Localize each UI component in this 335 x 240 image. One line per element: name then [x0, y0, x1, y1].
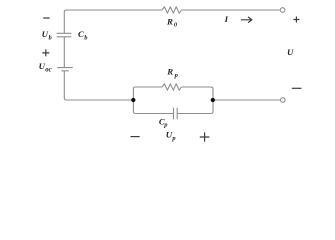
wire: loop upper branch with node stubs	[133, 87, 162, 100]
polarity minus of U terminal	[292, 87, 302, 89]
capacitor Cb	[57, 33, 72, 37]
polarity minus of Up	[131, 136, 140, 138]
svg-text:b: b	[84, 34, 88, 41]
svg-text:R: R	[166, 66, 173, 76]
wire: Rp to right side of loop	[181, 87, 213, 100]
wire: loop lower branch left to Cp	[133, 100, 173, 114]
svg-text:R: R	[166, 16, 173, 26]
wire top-left: from capacitor Cb up and across to R0	[64, 10, 162, 33]
resistor R0	[162, 7, 181, 13]
polarity plus of Up	[200, 132, 210, 141]
svg-text:I: I	[224, 14, 229, 24]
svg-text:p: p	[163, 122, 168, 129]
current arrow	[241, 17, 252, 23]
polarity plus of Uoc	[42, 49, 49, 56]
node A (junction dot)	[131, 98, 135, 102]
wire bottom-left: from battery down and right to node A	[64, 71, 131, 100]
node B (junction dot)	[211, 98, 215, 102]
capacitor Cp	[174, 108, 178, 119]
terminal negative (open circle)	[281, 98, 286, 103]
terminal positive (open circle)	[280, 8, 285, 13]
resistor Rp	[162, 84, 181, 90]
wire: node B to negative terminal	[213, 99, 281, 101]
wire: Cb to battery	[63, 37, 65, 68]
svg-text:0: 0	[174, 21, 178, 28]
svg-text:oc: oc	[45, 66, 51, 73]
battery Uoc	[57, 68, 72, 71]
svg-text:b: b	[49, 35, 53, 42]
svg-text:p: p	[171, 135, 176, 142]
polarity plus of U terminal	[293, 17, 299, 23]
svg-text:C: C	[78, 29, 84, 39]
svg-text:p: p	[174, 72, 179, 79]
svg-text:U: U	[287, 47, 294, 57]
polarity minus of Cb	[43, 17, 49, 19]
wire: R0 to positive terminal	[181, 9, 280, 11]
wire: Cp to right side of loop	[177, 100, 213, 114]
